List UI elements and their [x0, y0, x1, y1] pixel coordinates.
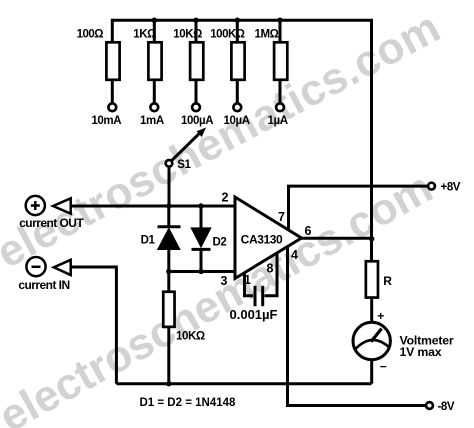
svg-text:D2: D2: [213, 237, 227, 249]
svg-text:CA3130: CA3130: [241, 233, 283, 247]
svg-text:0.001µF: 0.001µF: [230, 307, 278, 322]
svg-text:S1: S1: [177, 159, 191, 171]
svg-text:1MΩ: 1MΩ: [255, 29, 279, 41]
svg-text:3: 3: [221, 274, 228, 288]
svg-text:10mA: 10mA: [91, 115, 121, 127]
svg-text:2: 2: [222, 191, 229, 205]
svg-text:10µA: 10µA: [224, 115, 250, 127]
svg-text:D1 = D2 = 1N4148: D1 = D2 = 1N4148: [140, 397, 237, 409]
svg-text:4: 4: [291, 248, 298, 262]
svg-text:100KΩ: 100KΩ: [210, 29, 244, 41]
svg-text:100µA: 100µA: [181, 115, 213, 127]
svg-text:1: 1: [244, 273, 251, 287]
svg-text:-8V: -8V: [438, 401, 455, 413]
svg-text:1V max: 1V max: [400, 345, 442, 359]
svg-text:8: 8: [267, 262, 274, 276]
svg-text:current IN: current IN: [18, 278, 69, 292]
svg-text:6: 6: [305, 224, 312, 238]
svg-text:10KΩ: 10KΩ: [173, 29, 202, 41]
svg-text:−: −: [380, 360, 387, 374]
svg-text:+8V: +8V: [441, 182, 461, 194]
svg-text:1mA: 1mA: [140, 115, 164, 127]
svg-text:10KΩ: 10KΩ: [176, 330, 205, 342]
svg-text:7: 7: [278, 210, 285, 224]
svg-text:current OUT: current OUT: [19, 216, 84, 230]
svg-text:1µA: 1µA: [268, 115, 288, 127]
svg-text:D1: D1: [141, 235, 156, 247]
svg-text:1KΩ: 1KΩ: [133, 29, 156, 41]
svg-text:+: +: [377, 309, 384, 323]
svg-text:100Ω: 100Ω: [77, 29, 104, 41]
svg-text:R: R: [383, 274, 392, 288]
